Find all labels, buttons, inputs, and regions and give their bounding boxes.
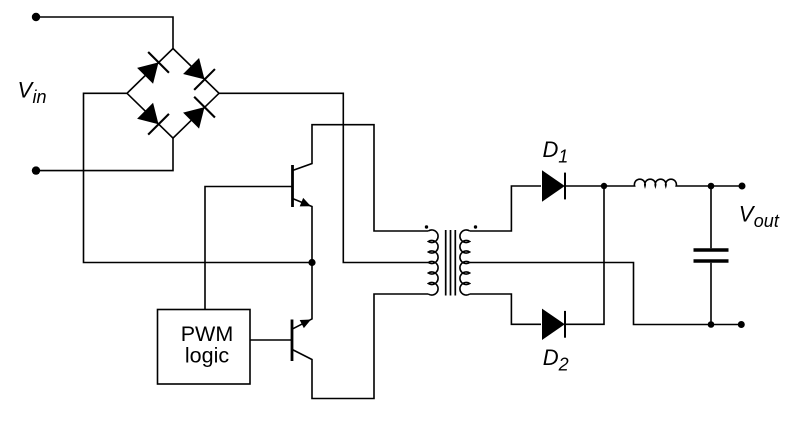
- svg-text:1: 1: [558, 146, 568, 166]
- svg-text:out: out: [754, 211, 780, 231]
- svg-text:in: in: [33, 87, 47, 107]
- svg-text:2: 2: [558, 355, 569, 375]
- svg-text:PWM: PWM: [181, 322, 234, 346]
- svg-text:D: D: [543, 345, 559, 370]
- svg-text:logic: logic: [185, 343, 229, 367]
- svg-text:D: D: [543, 137, 559, 162]
